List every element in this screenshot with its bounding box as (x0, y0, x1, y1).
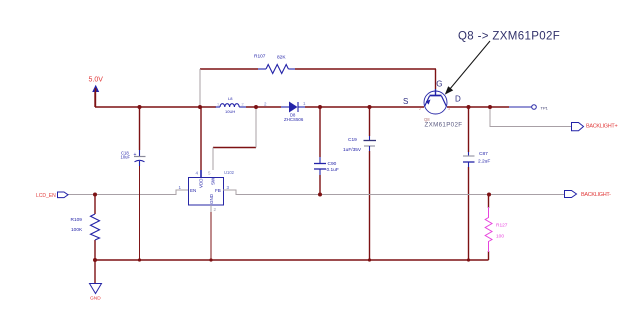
svg-text:5.0V: 5.0V (89, 77, 104, 84)
svg-text:R127: R127 (496, 223, 508, 229)
svg-text:0.1uF: 0.1uF (327, 167, 339, 173)
svg-text:2: 2 (242, 103, 244, 107)
svg-text:L8: L8 (228, 96, 233, 101)
svg-text:G: G (436, 80, 442, 89)
svg-text:BACKLIGHT-: BACKLIGHT- (581, 192, 611, 198)
svg-text:ZHCS506: ZHCS506 (284, 117, 304, 122)
svg-text:LCD_EN: LCD_EN (36, 193, 56, 199)
svg-text:U102: U102 (224, 170, 235, 175)
svg-text:100: 100 (496, 234, 504, 240)
svg-text:+: + (134, 152, 137, 158)
svg-text:82K: 82K (277, 55, 286, 61)
svg-text:100K: 100K (71, 227, 83, 233)
svg-text:Q8 -> ZXM61P02F: Q8 -> ZXM61P02F (458, 30, 560, 42)
svg-text:SW: SW (211, 177, 216, 185)
svg-text:10UH: 10UH (225, 109, 235, 114)
svg-text:R109: R109 (71, 217, 83, 223)
svg-text:10uF: 10uF (121, 155, 131, 160)
svg-text:GND: GND (90, 296, 101, 302)
svg-text:FB: FB (215, 188, 221, 193)
svg-text:TP1: TP1 (541, 106, 549, 111)
svg-text:3: 3 (448, 107, 450, 111)
svg-text:D: D (455, 95, 461, 104)
svg-text:C87: C87 (479, 151, 488, 157)
svg-text:GND: GND (209, 193, 214, 204)
svg-text:S: S (403, 97, 408, 106)
svg-text:R107: R107 (254, 54, 266, 60)
svg-text:2.2uF: 2.2uF (478, 159, 490, 165)
svg-text:VDD: VDD (199, 178, 204, 188)
svg-text:1uF/35V: 1uF/35V (343, 147, 362, 153)
svg-text:ZXM61P02F: ZXM61P02F (425, 121, 463, 128)
svg-text:EN: EN (190, 188, 196, 193)
svg-text:C19: C19 (348, 137, 357, 143)
svg-text:2: 2 (419, 107, 421, 111)
svg-text:BACKLIGHT+: BACKLIGHT+ (586, 124, 617, 130)
svg-text:1: 1 (217, 103, 219, 107)
svg-text:C90: C90 (328, 161, 337, 167)
